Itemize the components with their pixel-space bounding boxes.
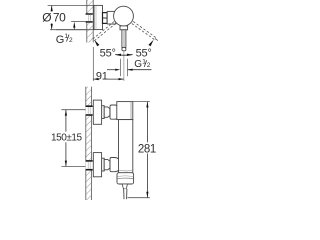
svg-text:G: G [134, 59, 142, 70]
svg-text:150±15: 150±15 [51, 133, 82, 144]
svg-text:2: 2 [69, 37, 73, 44]
svg-text:281: 281 [138, 143, 156, 155]
svg-text:G: G [56, 34, 65, 46]
svg-text:Ø 70: Ø 70 [42, 11, 66, 25]
svg-text:2: 2 [147, 62, 151, 69]
svg-text:55°: 55° [136, 47, 152, 59]
svg-text:91: 91 [96, 71, 108, 83]
svg-text:55°: 55° [100, 47, 116, 59]
